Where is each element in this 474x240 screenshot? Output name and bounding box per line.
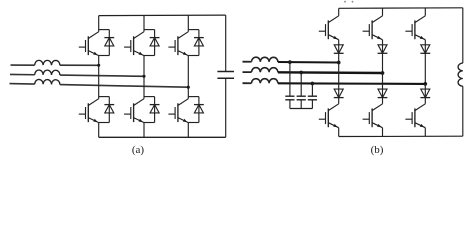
wire diode D7 cathode to phase bus — [338, 53, 340, 62]
diode D4 — [104, 105, 114, 113]
inductor L5 — [252, 68, 278, 73]
wire leg 1 lower cell bottom bar — [99, 122, 110, 124]
wire filter capacitor common rail — [290, 108, 313, 110]
svg-text:(a): (a) — [132, 144, 145, 156]
diode D10 — [334, 89, 344, 98]
node leg 1' bus junction — [337, 61, 341, 65]
wire phase bus to diode D12 — [424, 84, 426, 98]
IGBT Q7 — [319, 16, 339, 40]
wire diode D8 cathode to phase bus — [382, 53, 384, 73]
wire phase bus a' — [278, 61, 339, 64]
IGBT Q2 — [124, 32, 144, 56]
diode D3 — [194, 38, 204, 46]
svg-text:(b): (b) — [371, 144, 384, 156]
wire leg 1 upper cell bottom bar — [99, 55, 110, 57]
node leg 2' bus junction — [381, 71, 385, 75]
wire diode D12 to IGBT Q12 — [424, 98, 426, 104]
wire filter capacitor Cf1 bottom lead — [289, 100, 291, 109]
wire filter capacitor Cf2 top lead — [300, 72, 302, 96]
node phase c junction — [187, 86, 190, 89]
wire leg 1' upper collector lead — [338, 8, 340, 16]
inductor L1 — [35, 60, 60, 65]
diode D7 — [334, 45, 344, 54]
wire leg 3 upper cell bottom bar — [188, 55, 199, 57]
capacitor Cf3 — [308, 96, 317, 100]
wire phase b source stub — [10, 73, 35, 75]
wire filter capacitor Cf2 bottom lead — [300, 100, 302, 109]
inductor L3 — [35, 79, 60, 84]
wire leg 3 upper cell top bar — [188, 29, 199, 31]
IGBT Q6 — [168, 99, 188, 123]
wire antiparallel diode D2 branch — [154, 30, 156, 56]
IGBT Q3 — [168, 32, 188, 56]
wire phase bus b' — [278, 71, 383, 74]
wire antiparallel diode D5 branch — [154, 97, 156, 123]
diode D6 — [194, 105, 204, 113]
wire leg 3 lower cell bottom bar — [188, 122, 199, 124]
wire leg 3 emitter to negative rail — [187, 123, 189, 138]
wire diode D9 cathode to phase bus — [424, 53, 426, 84]
wire leg 1 emitter to negative rail — [98, 123, 100, 138]
wire leg 3' upper collector lead — [424, 8, 426, 16]
wire antiparallel diode D3 branch — [198, 30, 200, 56]
wire leg 1 upper cell top bar — [99, 29, 110, 31]
diode D5 — [150, 105, 160, 113]
wire leg 3 midpoint — [187, 56, 189, 99]
wire capacitor C1 top lead — [225, 15, 227, 71]
IGBT Q8 — [363, 16, 383, 40]
wire leg 2 lower cell bottom bar — [144, 122, 155, 124]
wire phase b to converter leg 2 — [60, 75, 144, 76]
capacitor Cf1 — [285, 96, 294, 100]
wire diode D10 to IGBT Q10 — [338, 98, 340, 104]
diode D1 — [104, 38, 114, 46]
diode D9 — [420, 45, 430, 54]
wire leg 2 upper collector lead — [143, 15, 145, 31]
wire IGBT Q11 emitter to negative rail — [382, 128, 384, 137]
wire antiparallel diode D4 branch — [108, 97, 110, 123]
wire leg 1 midpoint — [98, 56, 100, 99]
wire phase b' source stub — [243, 71, 252, 73]
wire DC negative rail — [99, 136, 226, 138]
wire DC positive rail of CSC — [339, 7, 463, 10]
node leg 3' bus junction — [423, 82, 427, 86]
wire diode D11 to IGBT Q11 — [382, 98, 384, 104]
wire filter capacitor Cf3 top lead — [311, 83, 313, 96]
node phase b junction — [142, 75, 145, 78]
wire phase a source stub — [11, 64, 35, 66]
wire filter capacitor Cf1 top lead — [289, 62, 291, 96]
inductor L4 — [252, 57, 278, 62]
wire leg 3 upper collector lead — [187, 15, 189, 31]
IGBT Q5 — [124, 99, 144, 123]
IGBT Q9 — [405, 16, 425, 40]
diode D8 — [378, 45, 388, 54]
capacitor C1 — [217, 72, 234, 79]
wire phase a to converter leg 1 — [60, 64, 99, 66]
capacitor Cf2 — [297, 96, 306, 100]
stray ink specks above circuit b — [344, 1, 353, 3]
wire leg 2' upper collector lead — [382, 8, 384, 16]
wire DC positive rail — [99, 14, 226, 17]
wire IGBT Q7 emitter to diode D7 — [338, 40, 340, 54]
wire IGBT Q8 emitter to diode D8 — [382, 40, 384, 54]
wire phase bus to diode D11 — [382, 73, 384, 98]
diode D11 — [378, 89, 388, 98]
wire antiparallel diode D6 branch — [198, 97, 200, 123]
IGBT Q4 — [79, 99, 99, 123]
wire leg 3 lower cell top bar — [188, 96, 199, 98]
inductor Ldc — [458, 63, 463, 86]
wire capacitor C1 bottom lead — [225, 78, 227, 137]
wire leg 1 lower cell top bar — [99, 96, 110, 98]
IGBT Q12 — [405, 104, 425, 128]
wire antiparallel diode D1 branch — [108, 30, 110, 56]
wire DC negative rail of CSC — [339, 135, 463, 137]
IGBT Q11 — [363, 104, 383, 128]
node filter capacitor Cf1 tap — [288, 60, 292, 64]
wire leg 2 upper cell top bar — [144, 29, 155, 31]
wire phase c' source stub — [243, 82, 252, 84]
node phase a junction — [97, 64, 100, 67]
wire IGBT Q10 emitter to negative rail — [338, 128, 340, 137]
wire phase a' source stub — [243, 61, 252, 63]
diode D12 — [420, 89, 430, 98]
wire leg 2 midpoint — [143, 56, 145, 99]
inductor L6 — [252, 79, 278, 84]
wire phase bus c' — [278, 82, 425, 85]
wire phase bus to diode D10 — [338, 63, 340, 98]
wire leg 2 emitter to negative rail — [143, 123, 145, 138]
wire DC smoothing inductor Ldc bottom lead — [462, 86, 464, 136]
wire leg 2 lower cell top bar — [144, 96, 155, 98]
node filter capacitor Cf3 tap — [311, 82, 315, 86]
wire phase c to converter leg 3 — [60, 85, 188, 88]
wire leg 1 upper collector lead — [98, 16, 100, 32]
wire leg 2 upper cell bottom bar — [144, 55, 155, 57]
wire IGBT Q12 emitter to negative rail — [424, 128, 426, 137]
wire DC smoothing inductor Ldc top lead — [462, 8, 464, 63]
IGBT Q1 — [79, 32, 99, 56]
node filter capacitor Cf2 tap — [299, 71, 303, 75]
inductor L2 — [35, 70, 60, 75]
wire filter capacitor Cf3 bottom lead — [311, 100, 313, 109]
diode D2 — [150, 38, 160, 46]
wire phase c source stub — [10, 83, 35, 86]
wire IGBT Q9 emitter to diode D9 — [424, 40, 426, 54]
IGBT Q10 — [319, 104, 339, 128]
